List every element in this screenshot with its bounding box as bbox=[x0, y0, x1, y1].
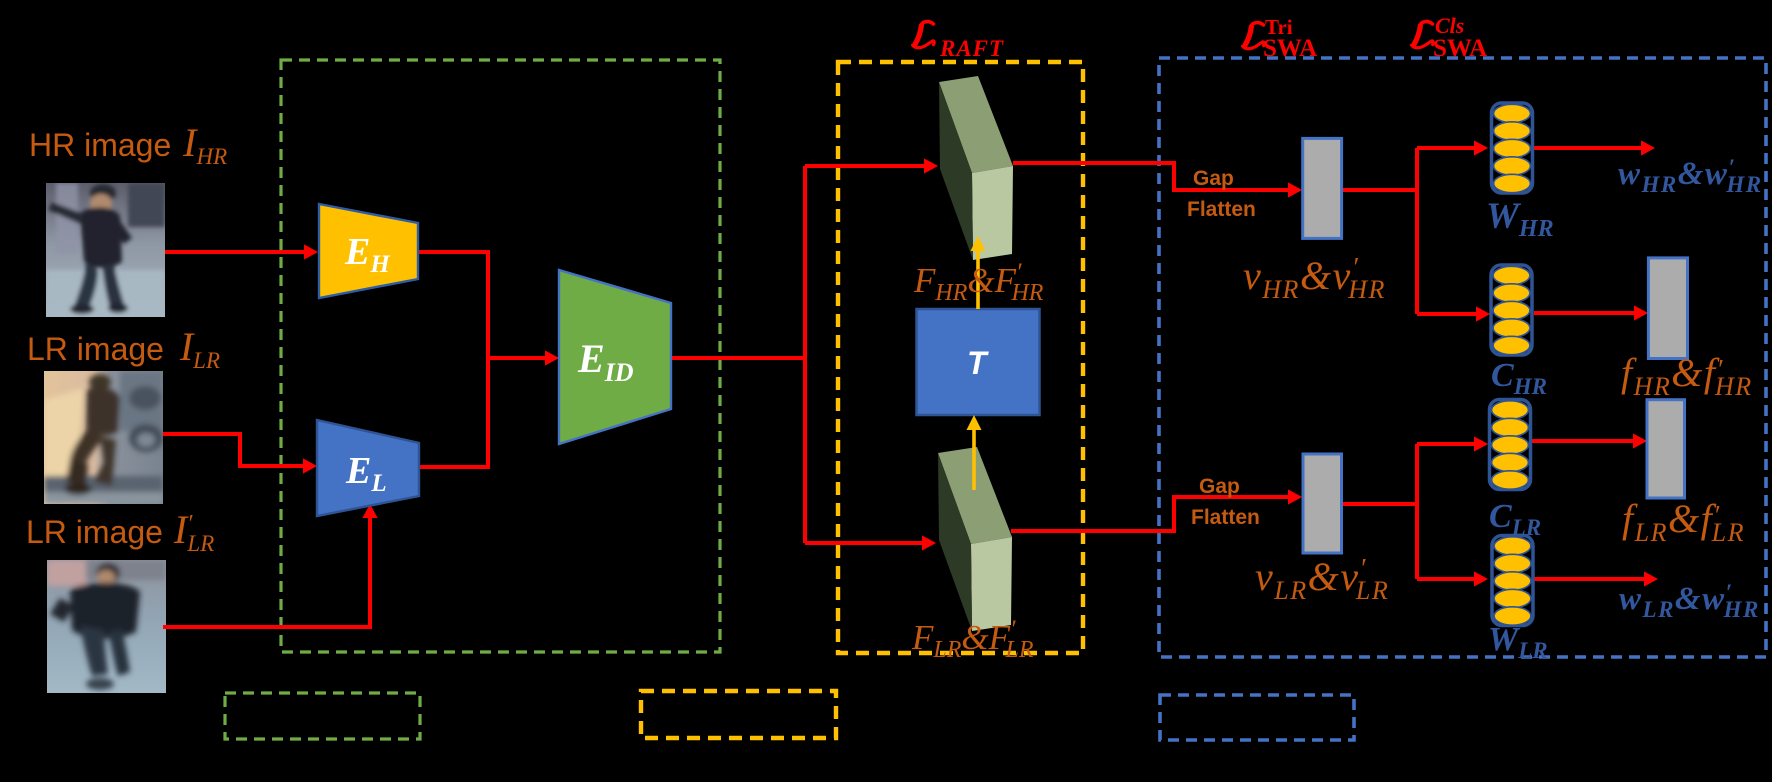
svg-text:CLR: CLR bbox=[1489, 498, 1541, 540]
svg-text:RAFT: RAFT bbox=[939, 36, 1004, 61]
svg-text:LR image ILR: LR image ILR bbox=[27, 324, 220, 373]
svg-text:vLR&v′LR: vLR&v′LR bbox=[1255, 553, 1389, 605]
svg-text:Flatten: Flatten bbox=[1187, 198, 1256, 221]
svg-text:fLR&f′LR: fLR&f′LR bbox=[1622, 496, 1745, 547]
svg-text:FHR&F′HR: FHR&F′HR bbox=[913, 259, 1044, 306]
svg-text:Gap: Gap bbox=[1199, 475, 1240, 498]
svg-text:WLR: WLR bbox=[1488, 621, 1548, 663]
svg-text:WHR: WHR bbox=[1486, 196, 1554, 242]
svg-text:Flatten: Flatten bbox=[1191, 506, 1260, 529]
svg-text:LR image I′LR: LR image I′LR bbox=[26, 507, 214, 556]
svg-text:Gap: Gap bbox=[1193, 167, 1234, 190]
svg-text:FLR&F′LR: FLR&F′LR bbox=[911, 616, 1034, 663]
svg-text:SWA: SWA bbox=[1433, 35, 1487, 62]
svg-text:T: T bbox=[967, 345, 989, 381]
svg-text:HR image IHR: HR image IHR bbox=[29, 120, 227, 169]
svg-text:vHR&v′HR: vHR&v′HR bbox=[1243, 252, 1386, 304]
svg-text:SWA: SWA bbox=[1263, 35, 1317, 62]
svg-text:wHR&w′HR: wHR&w′HR bbox=[1618, 155, 1763, 197]
svg-text:CHR: CHR bbox=[1491, 357, 1547, 399]
svg-text:wLR&w′HR: wLR&w′HR bbox=[1619, 580, 1760, 622]
svg-text:fHR&f′HR: fHR&f′HR bbox=[1621, 350, 1753, 401]
